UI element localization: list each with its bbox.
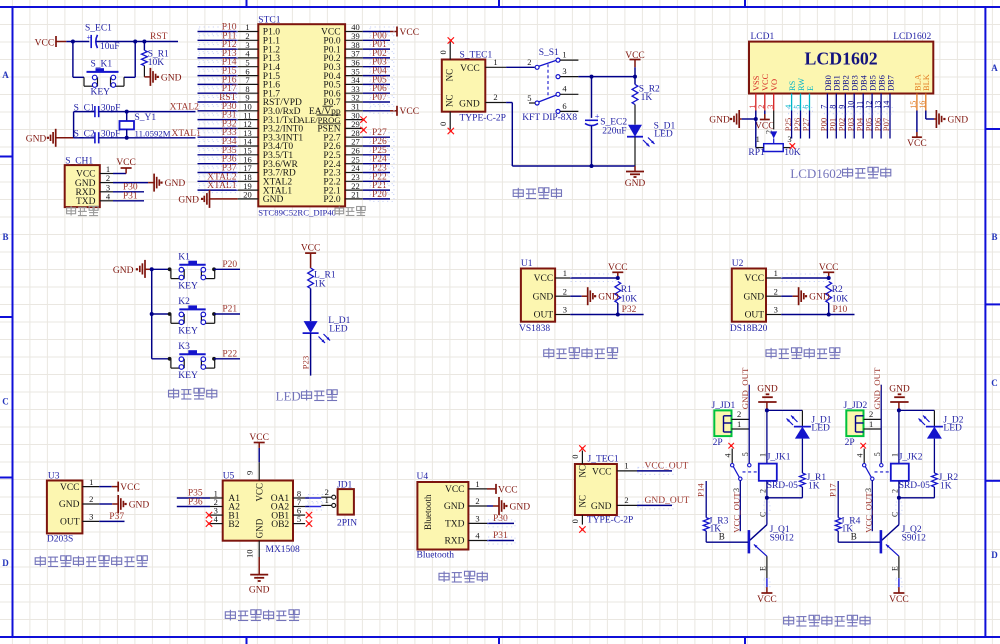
svg-text:SRD-05: SRD-05 [767, 481, 798, 491]
svg-text:2: 2 [563, 286, 567, 296]
svg-text:14: 14 [882, 101, 891, 109]
svg-text:D: D [2, 558, 9, 568]
svg-text:VCC: VCC [498, 485, 518, 495]
svg-text:VCC: VCC [592, 467, 612, 477]
svg-text:10: 10 [245, 550, 255, 559]
svg-text:DB1: DB1 [833, 75, 842, 91]
svg-text:VCC: VCC [35, 38, 55, 48]
svg-text:3: 3 [562, 66, 566, 76]
title 人体热释电感应模块 (PIR module) [35, 556, 147, 567]
svg-text:10K: 10K [784, 148, 801, 158]
svg-text:3: 3 [563, 305, 567, 315]
net label P23 wire [301, 333, 311, 376]
svg-text:15: 15 [909, 101, 918, 109]
label 单片机 (MCU) [335, 207, 365, 216]
ground GND (lcd VSS) [709, 110, 757, 128]
net label P30 (S_CH1) [113, 182, 144, 192]
svg-text:P23: P23 [301, 355, 311, 369]
svg-text:D: D [991, 550, 998, 560]
svg-text:VSS: VSS [752, 75, 761, 91]
svg-text:GND: GND [129, 501, 150, 511]
svg-text:J_JK1: J_JK1 [767, 453, 791, 463]
svg-text:P21: P21 [222, 305, 237, 315]
svg-text:GND_OUT: GND_OUT [645, 496, 690, 506]
svg-text:S_Y1: S_Y1 [135, 113, 157, 123]
module U3 D203S [47, 472, 99, 545]
svg-text:DS18B20: DS18B20 [730, 324, 768, 334]
net label P30 (U4 pin3) [487, 514, 515, 527]
svg-text:NC: NC [445, 94, 455, 107]
svg-text:TYPE-C-2P: TYPE-C-2P [460, 113, 506, 123]
svg-text:GND: GND [510, 503, 531, 513]
svg-text:VCC: VCC [608, 263, 628, 273]
svg-text:VS1838: VS1838 [519, 324, 550, 334]
svg-text:5: 5 [297, 514, 301, 524]
ground GND (mcu pin20) [178, 190, 237, 208]
svg-text:6: 6 [562, 101, 566, 111]
module U5 MX1508 body [210, 462, 305, 558]
svg-text:DB4: DB4 [860, 74, 869, 91]
svg-text:Bluetooth: Bluetooth [417, 551, 455, 561]
svg-text:16: 16 [918, 101, 927, 109]
svg-text:ALE/PROG: ALE/PROG [299, 115, 341, 125]
svg-text:5: 5 [793, 105, 802, 109]
svg-text:3: 3 [89, 512, 93, 522]
svg-text:2: 2 [758, 489, 767, 493]
svg-text:VCC: VCC [761, 73, 770, 91]
svg-text:1: 1 [737, 419, 741, 429]
svg-text:1K: 1K [808, 482, 820, 492]
svg-text:B2: B2 [228, 520, 239, 530]
svg-text:GND_OUT: GND_OUT [740, 367, 750, 409]
module U4 Bluetooth body [417, 472, 488, 561]
svg-text:2: 2 [757, 105, 766, 109]
net label GND_OUT (J_TEC1 pin2) [637, 496, 690, 509]
mcu U STC1 body [258, 16, 345, 218]
svg-text:VCC: VCC [116, 158, 136, 168]
capacitor S_EC2 [585, 77, 627, 166]
ground GND (U4 pin2) [487, 497, 530, 515]
svg-text:TXD: TXD [445, 520, 465, 530]
svg-text:9: 9 [245, 471, 255, 475]
svg-text:10K: 10K [832, 295, 849, 305]
net label P37 (U3 pin3) [99, 512, 124, 522]
connector JD1 [321, 481, 357, 529]
svg-text:GND: GND [113, 266, 134, 276]
svg-text:SRD-05: SRD-05 [899, 481, 930, 491]
svg-text:10K: 10K [148, 58, 165, 68]
ground GND (crystal) [26, 129, 74, 147]
power VCC (lcd pin2) [755, 111, 775, 132]
svg-text:4: 4 [214, 514, 219, 524]
svg-text:LED: LED [329, 324, 348, 334]
mcu STC1 pins [238, 22, 363, 205]
svg-text:2: 2 [737, 409, 741, 419]
key K1 [152, 252, 240, 291]
no-connect X U5 pin6 [306, 512, 312, 518]
led L_D1 [303, 316, 351, 343]
svg-text:NC: NC [578, 495, 588, 508]
svg-text:DB6: DB6 [878, 75, 887, 91]
svg-text:J_JK2: J_JK2 [899, 453, 923, 463]
svg-text:VCC: VCC [755, 122, 775, 132]
svg-text:E: E [891, 566, 900, 571]
svg-text:GND: GND [165, 179, 186, 189]
svg-text:0: 0 [438, 122, 448, 126]
wire key right branch [124, 42, 135, 78]
svg-text:1K: 1K [710, 525, 722, 535]
svg-text:GND: GND [255, 518, 265, 538]
capacitor S_C1 [74, 104, 121, 118]
potentiometer RP1 with arrow wiper [748, 111, 800, 159]
svg-text:1K: 1K [842, 525, 854, 535]
title LED灯电路 [276, 389, 338, 404]
svg-text:VCC: VCC [889, 595, 909, 605]
power VCC (supply rail) [625, 51, 645, 67]
svg-text:3: 3 [864, 488, 873, 492]
title 按键电路 (key circuit) [169, 388, 217, 399]
svg-text:C: C [2, 397, 9, 407]
svg-text:VCC: VCC [60, 483, 80, 493]
svg-text:GND: GND [444, 502, 465, 512]
svg-text:3: 3 [475, 514, 479, 524]
svg-text:S9012: S9012 [902, 534, 927, 544]
svg-text:2: 2 [493, 92, 497, 102]
svg-text:DB3: DB3 [851, 75, 860, 91]
module U2 DS18B20 with resistor R2 [730, 259, 855, 334]
svg-text:10K: 10K [621, 295, 638, 305]
svg-text:P36: P36 [188, 497, 203, 507]
ground GND (S_CH1 pin2) [113, 174, 185, 192]
svg-text:4: 4 [784, 105, 793, 109]
svg-text:OUT: OUT [745, 311, 765, 321]
wire S_EC1 to RST node [97, 40, 147, 44]
svg-text:D203S: D203S [47, 534, 73, 544]
svg-text:3: 3 [732, 488, 741, 492]
svg-text:GND: GND [161, 73, 182, 83]
svg-text:TYPE-C-2P: TYPE-C-2P [587, 515, 633, 525]
svg-text:P30: P30 [493, 514, 508, 524]
svg-text:LED: LED [654, 130, 673, 140]
svg-text:P20: P20 [222, 260, 237, 270]
svg-text:NC: NC [445, 69, 455, 82]
svg-text:2: 2 [624, 495, 628, 505]
wire U5 pin7 to JD1 pin1 [305, 503, 323, 510]
svg-text:VCC: VCC [400, 28, 420, 38]
svg-text:BLK: BLK [922, 74, 931, 91]
title 红外接收模块 (IR receiver) [544, 348, 618, 359]
svg-text:R2: R2 [832, 285, 843, 295]
svg-text:VCC: VCC [301, 243, 321, 253]
svg-text:2PIN: 2PIN [337, 518, 357, 528]
svg-text:J_TEC1: J_TEC1 [588, 454, 619, 464]
resistor S_R2 [632, 77, 660, 105]
ground GND (power circuit) [625, 166, 646, 189]
svg-text:XTAL2: XTAL2 [170, 103, 200, 113]
svg-text:RW: RW [797, 78, 806, 91]
svg-text:GND: GND [591, 502, 612, 512]
svg-text:P22: P22 [222, 350, 237, 360]
svg-text:20: 20 [243, 190, 252, 200]
no-connect X pin29 [360, 127, 366, 133]
svg-text:5: 5 [527, 93, 531, 103]
power VCC (U4 pin1) [487, 484, 518, 495]
svg-text:LCD1: LCD1 [751, 32, 775, 42]
svg-text:VCC: VCC [757, 595, 777, 605]
net label P36 (U5 pin2) [177, 497, 210, 507]
svg-text:LCD1602: LCD1602 [805, 49, 878, 69]
svg-text:TXD: TXD [76, 197, 96, 207]
svg-text:5: 5 [741, 452, 750, 456]
svg-text:LCD1602: LCD1602 [893, 32, 931, 42]
net label XTAL1 [172, 129, 202, 139]
power VCC (lcd BLA) [907, 111, 927, 149]
no-connect X pin30 [360, 116, 366, 122]
no-connect X S_TEC1 top [448, 37, 454, 43]
key bus wire [150, 267, 154, 359]
svg-text:RST: RST [150, 32, 168, 42]
svg-text:STC89C52RC_DIP40: STC89C52RC_DIP40 [258, 208, 336, 218]
wire S_TEC1 pin1 to switch [506, 66, 534, 68]
svg-text:DB2: DB2 [842, 75, 851, 91]
title 蓝牙模块 (bluetooth module) [439, 571, 487, 582]
svg-text:9: 9 [838, 105, 847, 109]
svg-text:P17: P17 [828, 483, 838, 497]
relay circuit 1: J_JD1 J_JK1 J_D1 J_R1 J_R3 J_Q1 [696, 367, 832, 605]
svg-text:MX1508: MX1508 [266, 545, 301, 555]
svg-text:LCD1602: LCD1602 [790, 166, 842, 181]
svg-text:VCC: VCC [249, 433, 269, 443]
wire XTAL1 node [99, 136, 196, 140]
svg-text:GND: GND [459, 99, 480, 109]
svg-text:A: A [2, 70, 9, 80]
svg-text:VCC_OUT: VCC_OUT [732, 492, 742, 533]
net label XTAL2 [170, 103, 200, 113]
svg-text:220uF: 220uF [602, 126, 626, 136]
key S_K1 [84, 60, 124, 98]
svg-text:11: 11 [855, 101, 864, 109]
svg-text:2P: 2P [845, 438, 855, 448]
ground GND (U3 pin2) [99, 495, 149, 513]
svg-text:P07: P07 [881, 117, 891, 131]
svg-text:1: 1 [475, 479, 479, 489]
svg-text:GND: GND [249, 585, 270, 595]
connector J_TEC1 body [570, 451, 637, 526]
svg-text:R1: R1 [621, 285, 632, 295]
svg-text:VCC: VCC [534, 274, 554, 284]
title 继电器控制电路 (relay control) [784, 615, 871, 626]
no-connect X U5 pin4 [206, 520, 212, 526]
svg-text:VCC: VCC [907, 139, 927, 149]
svg-text:KEY: KEY [178, 371, 198, 381]
svg-text:3: 3 [787, 134, 791, 144]
net label RST [144, 32, 178, 42]
svg-text:7: 7 [820, 105, 829, 109]
svg-text:1: 1 [748, 105, 757, 109]
svg-text:2: 2 [890, 489, 899, 493]
svg-text:Bluetooth: Bluetooth [423, 494, 433, 530]
mcu left net wires P10-P17 RST P30-P37 XTAL1 XTAL2 [198, 23, 238, 193]
svg-text:4: 4 [856, 454, 865, 458]
net label VCC_OUT (J_TEC1 pin1) [637, 462, 689, 475]
svg-text:C: C [890, 512, 899, 517]
switch S_S1 [522, 48, 578, 123]
title LCD1602显示模块 [790, 166, 891, 181]
power VCC (S_CH1 pin1) [113, 158, 136, 174]
svg-text:1: 1 [562, 50, 566, 60]
ground GND (reset) [144, 66, 181, 86]
svg-text:P27: P27 [801, 117, 811, 131]
svg-text:B: B [991, 232, 997, 242]
svg-text:VCC_OUT: VCC_OUT [864, 492, 874, 533]
wire XTAL2 node [99, 110, 196, 114]
svg-text:1: 1 [624, 460, 628, 470]
svg-text:2P: 2P [713, 438, 723, 448]
svg-text:VCC: VCC [745, 274, 765, 284]
svg-text:RXD: RXD [444, 537, 464, 547]
svg-text:+: + [87, 33, 92, 42]
svg-text:VCC: VCC [445, 485, 465, 495]
mcu right net wires and VCC ports [363, 27, 419, 202]
ground GND (U5 pin10) [249, 557, 270, 595]
svg-text:OB2: OB2 [271, 520, 289, 530]
svg-text:GND: GND [809, 293, 830, 303]
svg-text:VCC: VCC [819, 263, 839, 273]
svg-text:P31: P31 [123, 191, 138, 201]
relay circuit 2: J_JD2 J_JK2 J_D2 J_R2 J_R4 J_Q2 [828, 367, 964, 605]
svg-text:0: 0 [570, 519, 580, 523]
svg-text:VO: VO [770, 79, 779, 91]
svg-text:8: 8 [829, 105, 838, 109]
svg-text:1K: 1K [641, 93, 653, 103]
svg-text:11.0592M: 11.0592M [135, 128, 171, 138]
crystal S_Y1 [120, 112, 171, 139]
svg-text:BLA: BLA [913, 74, 922, 91]
svg-text:KEY: KEY [178, 326, 198, 336]
svg-text:3: 3 [774, 305, 778, 315]
svg-text:OUT: OUT [60, 518, 80, 528]
net label P31 (S_CH1) [113, 191, 144, 201]
svg-text:+: + [595, 111, 600, 121]
svg-text:VCC_OUT: VCC_OUT [645, 462, 689, 472]
svg-text:GND: GND [744, 292, 765, 302]
lcd module LCD1 body [749, 32, 933, 94]
svg-text:DB5: DB5 [869, 75, 878, 91]
svg-text:1: 1 [89, 477, 93, 487]
title 电源电路 (power circuit) [513, 188, 561, 199]
svg-text:GND: GND [263, 195, 284, 205]
svg-text:LED: LED [811, 423, 830, 433]
resistor L_R1 [308, 268, 336, 289]
svg-text:VCC: VCC [255, 483, 265, 502]
capacitor S_EC1 [85, 24, 120, 53]
svg-text:1: 1 [325, 495, 329, 505]
wire VCC to S_EC1 [66, 40, 89, 44]
svg-text:C: C [991, 378, 998, 388]
svg-text:GND: GND [889, 384, 910, 394]
svg-text:GND_OUT: GND_OUT [872, 367, 882, 409]
svg-text:2: 2 [527, 57, 531, 67]
svg-text:KFT DIP-8X8: KFT DIP-8X8 [522, 113, 577, 123]
wire U5 pin8 to JD1 pin2 [305, 495, 323, 502]
svg-text:3: 3 [766, 105, 775, 109]
svg-text:2: 2 [475, 496, 479, 506]
svg-text:1K: 1K [940, 482, 952, 492]
svg-text:VCC: VCC [400, 107, 420, 117]
title 温度检测模块 (temperature) [766, 348, 840, 359]
svg-text:GND: GND [757, 384, 778, 394]
svg-text:P32: P32 [622, 305, 637, 315]
svg-text:C: C [758, 512, 767, 517]
svg-text:1: 1 [774, 268, 778, 278]
svg-text:RP1: RP1 [748, 148, 765, 158]
svg-text:LED: LED [943, 423, 962, 433]
svg-text:S9012: S9012 [770, 534, 795, 544]
capacitor S_C2 [74, 112, 121, 144]
svg-text:P2.0: P2.0 [323, 195, 340, 205]
svg-text:P14: P14 [696, 483, 706, 497]
no-connect X RP1 pin3 [790, 143, 796, 149]
svg-text:P31: P31 [493, 531, 508, 541]
svg-text:GND: GND [709, 115, 730, 125]
title 直流电机电路 (DC motor) [225, 610, 299, 621]
svg-text:2: 2 [774, 286, 778, 296]
connector S_CH1 [65, 156, 113, 207]
svg-text:GND: GND [178, 195, 199, 205]
svg-text:OUT: OUT [534, 311, 554, 321]
svg-text:S_S1: S_S1 [539, 48, 559, 58]
key K3 [152, 342, 240, 381]
svg-text:6: 6 [802, 105, 811, 109]
svg-text:1: 1 [869, 419, 873, 429]
label 下载口 (download port) [67, 206, 99, 215]
svg-text:2: 2 [89, 494, 93, 504]
resistor S_R1 [142, 42, 170, 69]
no-connect X U5 pin3 [206, 512, 212, 518]
svg-text:E: E [759, 566, 768, 571]
svg-text:XTAL1: XTAL1 [172, 129, 202, 139]
svg-text:1: 1 [756, 134, 760, 144]
svg-text:0: 0 [570, 455, 580, 459]
svg-text:U4: U4 [417, 472, 429, 482]
svg-text:2: 2 [869, 409, 873, 419]
svg-text:13: 13 [873, 101, 882, 109]
svg-text:GND: GND [598, 293, 619, 303]
svg-text:LED: LED [276, 389, 301, 404]
svg-text:4: 4 [724, 454, 733, 458]
svg-text:U1: U1 [521, 259, 533, 269]
svg-text:1: 1 [493, 57, 497, 67]
svg-text:VCC: VCC [460, 64, 480, 74]
no-connect X J_TEC1 bottom [579, 526, 585, 532]
svg-text:GND: GND [533, 292, 554, 302]
svg-text:KEY: KEY [91, 87, 111, 97]
svg-text:21: 21 [351, 190, 360, 200]
svg-text:5: 5 [873, 452, 882, 456]
svg-text:GND: GND [948, 115, 969, 125]
power VCC (U3 pin1) [99, 482, 140, 493]
svg-text:P37: P37 [109, 512, 124, 522]
svg-text:1K: 1K [314, 279, 326, 289]
power VCC (U5 pin9) [249, 433, 269, 462]
connector S_TEC1 [438, 42, 506, 130]
svg-text:10uF: 10uF [100, 42, 120, 52]
svg-text:S_K1: S_K1 [91, 60, 113, 70]
svg-text:12: 12 [864, 101, 873, 109]
ground GND (key circuit) [113, 260, 152, 278]
no-connect X U5 pin5 [306, 520, 312, 526]
svg-text:RS: RS [788, 80, 797, 91]
